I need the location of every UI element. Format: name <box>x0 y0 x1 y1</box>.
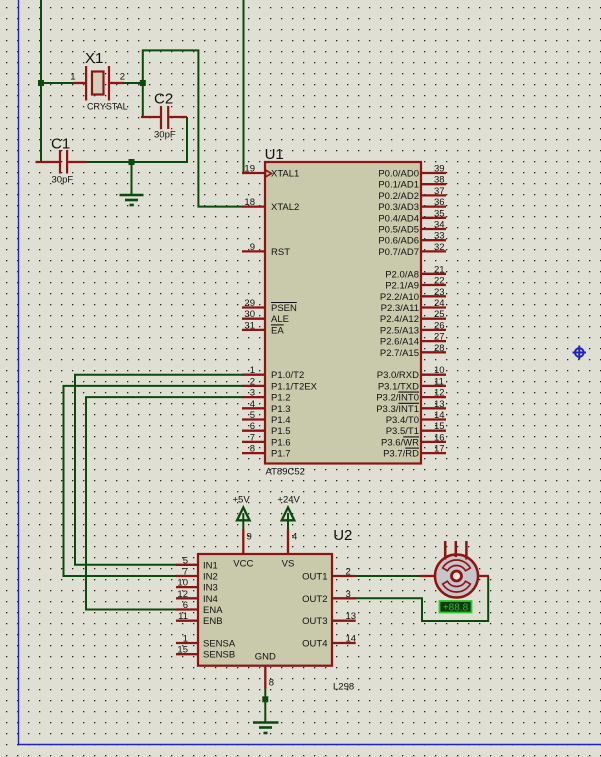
wire U1 P1.0 to U2 IN1 <box>75 375 243 565</box>
svg-text:IN2: IN2 <box>203 572 218 583</box>
junction at X1 pin 1 <box>38 80 44 86</box>
svg-text:3: 3 <box>250 388 255 399</box>
svg-text:38: 38 <box>434 175 445 186</box>
svg-text:18: 18 <box>244 197 255 208</box>
svg-text:U2: U2 <box>333 527 352 544</box>
svg-text:24: 24 <box>434 298 445 309</box>
U1 pin 27 (P2.6/A14) right <box>380 332 446 348</box>
svg-text:6: 6 <box>183 600 188 611</box>
wire GND pin to ground <box>264 689 266 722</box>
crystal X1 <box>73 66 124 101</box>
U2 pin 11 (ENB) left <box>176 611 223 627</box>
svg-text:P1.0/T2: P1.0/T2 <box>271 370 304 381</box>
svg-text:P0.7/AD7: P0.7/AD7 <box>378 247 419 258</box>
U1 pin 9 (RST) left <box>242 242 290 258</box>
svg-text:P1.4: P1.4 <box>271 415 291 426</box>
svg-text:25: 25 <box>434 309 445 320</box>
svg-text:11: 11 <box>178 611 188 622</box>
svg-text:P1.7: P1.7 <box>271 449 291 460</box>
U1 pin 33 (P0.6/AD6) right <box>378 231 446 247</box>
svg-text:OUT1: OUT1 <box>302 572 327 583</box>
motor rpm display <box>440 601 472 614</box>
svg-text:9: 9 <box>250 242 255 253</box>
U1 pin 22 (P2.1/A9) right <box>385 276 446 292</box>
U1 pin 38 (P0.1/AD1) right <box>378 175 446 191</box>
svg-text:P2.3/A11: P2.3/A11 <box>381 303 419 314</box>
junction on GND wire <box>262 696 268 702</box>
svg-text:AT89C52: AT89C52 <box>266 467 305 478</box>
svg-text:CRYSTAL: CRYSTAL <box>87 102 128 112</box>
U1 pin 18 (XTAL2) left <box>242 197 299 213</box>
U1 pin 8 (P1.7) left <box>242 444 291 460</box>
motor M1 body <box>435 555 478 598</box>
svg-text:P0.1/AD1: P0.1/AD1 <box>378 180 419 191</box>
svg-text:26: 26 <box>434 320 445 331</box>
U1 pin 4 (P1.3) left <box>242 399 291 415</box>
svg-text:14: 14 <box>346 634 357 645</box>
U2 pin 15 (SENSB) left <box>176 645 235 661</box>
junction at X1 pin 2 <box>140 80 146 86</box>
svg-text:2: 2 <box>120 72 125 83</box>
driver U2 body <box>198 554 332 666</box>
svg-text:33: 33 <box>434 231 445 242</box>
U1 pin 37 (P0.2/AD2) right <box>378 186 446 202</box>
U1 pin 35 (P0.4/AD4) right <box>378 208 446 224</box>
wire U1 P1.1 to U2 IN2 <box>64 386 244 576</box>
U1 pin 14 (P3.4/T0) right <box>386 410 446 426</box>
U1 pin 21 (P2.0/A8) right <box>385 264 446 280</box>
U2 pin 7 (IN2) left <box>176 567 218 583</box>
svg-text:5: 5 <box>183 555 188 566</box>
U1 pin 15 (P3.5/T1) right <box>386 421 446 437</box>
svg-text:XTAL2: XTAL2 <box>271 202 299 213</box>
svg-text:P0.6/AD6: P0.6/AD6 <box>378 236 419 247</box>
svg-text:1: 1 <box>250 365 255 376</box>
svg-text:OUT3: OUT3 <box>302 616 327 627</box>
U1 pin 34 (P0.5/AD5) right <box>378 220 446 236</box>
svg-text:P3.3/INT1: P3.3/INT1 <box>376 404 419 415</box>
svg-text:IN3: IN3 <box>203 583 218 594</box>
svg-text:5: 5 <box>250 410 255 421</box>
svg-text:8: 8 <box>269 678 274 689</box>
U1 pin 1 (P1.0/T2) left <box>242 365 304 381</box>
svg-text:36: 36 <box>434 197 445 208</box>
U1 pin 26 (P2.5/A13) right <box>380 320 446 336</box>
svg-text:P2.5/A13: P2.5/A13 <box>380 325 419 336</box>
svg-text:8: 8 <box>250 444 255 455</box>
svg-text:P1.2: P1.2 <box>271 393 291 404</box>
svg-text:10: 10 <box>177 578 188 589</box>
svg-text:L298: L298 <box>333 682 354 693</box>
svg-text:21: 21 <box>434 264 445 275</box>
svg-text:U1: U1 <box>265 146 284 163</box>
svg-text:P3.0/RXD: P3.0/RXD <box>377 370 419 381</box>
svg-text:30pF: 30pF <box>52 175 74 186</box>
svg-text:30: 30 <box>244 309 255 320</box>
U1 pin 30 (ALE) left <box>242 309 289 325</box>
svg-text:19: 19 <box>244 164 255 175</box>
U2 pin 14 (OUT4) right <box>302 634 356 650</box>
U1 pin 16 (P3.6/WR) right <box>381 432 446 448</box>
svg-text:9: 9 <box>247 532 252 543</box>
svg-text:P2.6/A14: P2.6/A14 <box>380 337 419 348</box>
svg-text:2: 2 <box>250 376 255 387</box>
U1 pin 6 (P1.5) left <box>242 421 291 437</box>
svg-text:P1.5: P1.5 <box>271 426 291 437</box>
svg-text:P2.1/A9: P2.1/A9 <box>385 281 419 292</box>
svg-text:P0.5/AD5: P0.5/AD5 <box>378 225 419 236</box>
wire X1 pin 2 to junction <box>123 82 143 84</box>
svg-text:7: 7 <box>183 567 188 578</box>
U1 pin 19 (XTAL1) left <box>242 164 299 180</box>
svg-text:P3.1/TXD: P3.1/TXD <box>378 381 419 392</box>
svg-text:GND: GND <box>255 652 276 663</box>
wire X1 pin2 loop to U1 XTAL2 <box>143 50 244 206</box>
svg-text:ENA: ENA <box>203 605 223 616</box>
wire net XTAL1 vertical from top to U1 <box>243 0 245 173</box>
U1 pin 39 (P0.0/AD0) right <box>378 164 446 180</box>
svg-text:30pF: 30pF <box>154 130 176 141</box>
power arrow +24V <box>282 508 295 555</box>
svg-text:13: 13 <box>346 611 357 622</box>
U2 pin 5 (IN1) left <box>176 555 218 571</box>
svg-text:P2.4/A12: P2.4/A12 <box>380 314 419 325</box>
svg-text:SENSA: SENSA <box>203 639 236 650</box>
U1 pin 11 (P3.1/TXD) right <box>378 376 446 392</box>
svg-text:C2: C2 <box>154 90 173 107</box>
svg-text:P3.6/WR: P3.6/WR <box>381 437 419 448</box>
svg-text:34: 34 <box>434 220 445 231</box>
wire OUT2 to motor right terminal <box>356 576 489 621</box>
capacitor C2 <box>141 106 187 129</box>
U1 pin 12 (P3.2/INT0) right <box>376 388 446 404</box>
motor left lead <box>420 575 436 577</box>
svg-text:IN1: IN1 <box>203 560 218 571</box>
U1 pin 17 (P3.7/RD) right <box>383 444 446 460</box>
svg-text:P2.0/A8: P2.0/A8 <box>385 269 419 280</box>
svg-text:7: 7 <box>250 432 255 443</box>
svg-text:12: 12 <box>177 589 188 600</box>
svg-text:4: 4 <box>292 532 297 543</box>
U2 pin 3 (OUT2) right <box>302 589 356 605</box>
U1 XTAL1 clock marker <box>266 170 272 177</box>
svg-text:6: 6 <box>250 421 255 432</box>
power arrow +5V <box>237 508 250 555</box>
sheet border left <box>18 0 20 745</box>
svg-text:IN4: IN4 <box>203 594 218 605</box>
svg-text:1: 1 <box>70 72 75 83</box>
motor right lead <box>477 575 489 577</box>
svg-text:P2.7/A15: P2.7/A15 <box>380 348 419 359</box>
ground symbol (U2) <box>253 723 279 734</box>
U1 pin 25 (P2.4/A12) right <box>380 309 446 325</box>
svg-text:X1: X1 <box>85 50 103 67</box>
svg-text:22: 22 <box>434 276 445 287</box>
svg-text:P3.2/INT0: P3.2/INT0 <box>376 393 419 404</box>
svg-text:13: 13 <box>434 399 445 410</box>
U1 pin 24 (P2.3/A11) right <box>381 298 446 314</box>
svg-text:1: 1 <box>183 634 188 645</box>
svg-text:P2.2/A10: P2.2/A10 <box>380 292 419 303</box>
U1 pin 28 (P2.7/A15) right <box>380 343 446 359</box>
svg-text:VCC: VCC <box>233 559 253 570</box>
svg-text:P0.0/AD0: P0.0/AD0 <box>378 169 419 180</box>
U1 pin 7 (P1.6) left <box>242 432 291 448</box>
motor commutator arc bottom <box>443 581 471 592</box>
wire junction to X1 pin 1 <box>41 82 74 84</box>
U1 pin 2 (P1.1/T2EX) left <box>242 376 318 392</box>
svg-text:XTAL1: XTAL1 <box>271 169 299 180</box>
U1 pin 10 (P3.0/RXD) right <box>377 365 446 381</box>
U1 pin 5 (P1.4) left <box>242 410 291 426</box>
svg-text:OUT4: OUT4 <box>302 639 327 650</box>
svg-text:14: 14 <box>434 410 445 421</box>
svg-text:31: 31 <box>244 320 255 331</box>
motor brush terminals <box>445 541 466 560</box>
svg-text:VS: VS <box>282 559 295 570</box>
U1 pin 13 (P3.3/INT1) right <box>376 399 446 415</box>
ground symbol (crystal circuit) <box>120 162 144 205</box>
svg-text:ENB: ENB <box>203 616 223 627</box>
svg-text:4: 4 <box>250 399 255 410</box>
svg-text:35: 35 <box>434 208 445 219</box>
capacitor C1 <box>36 150 87 174</box>
svg-text:P1.1/T2EX: P1.1/T2EX <box>271 381 318 392</box>
U2 pin 1 (SENSA) left <box>176 634 236 650</box>
svg-text:37: 37 <box>434 186 445 197</box>
U2 pin 2 (OUT1) right <box>302 567 356 583</box>
svg-text:ALE: ALE <box>271 314 289 325</box>
U1 pin 3 (P1.2) left <box>242 388 291 404</box>
U1 pin 29 (PSEN) left <box>242 298 297 314</box>
svg-text:EA: EA <box>271 325 284 336</box>
junction on ground rail <box>129 159 135 165</box>
svg-text:15: 15 <box>177 645 188 656</box>
wire OUT1 to motor left terminal <box>356 575 422 577</box>
svg-text:23: 23 <box>434 287 445 298</box>
svg-text:P0.4/AD4: P0.4/AD4 <box>378 213 419 224</box>
svg-text:+24V: +24V <box>277 495 300 506</box>
svg-text:+5V: +5V <box>233 495 251 506</box>
svg-text:P1.6: P1.6 <box>271 437 291 448</box>
svg-text:10: 10 <box>434 365 445 376</box>
svg-text:+88.8: +88.8 <box>443 603 469 614</box>
U1 pin 31 (EA) left <box>242 320 284 336</box>
svg-text:29: 29 <box>244 298 255 309</box>
svg-text:P1.3: P1.3 <box>271 404 291 415</box>
svg-text:3: 3 <box>346 589 351 600</box>
svg-text:RST: RST <box>271 247 290 258</box>
svg-text:SENSB: SENSB <box>203 650 235 661</box>
svg-text:28: 28 <box>434 343 445 354</box>
svg-text:2: 2 <box>346 567 351 578</box>
U1 pin 32 (P0.7/AD7) right <box>378 242 446 258</box>
svg-text:C1: C1 <box>51 135 70 152</box>
U2 pin 13 (OUT3) right <box>302 611 356 627</box>
sheet border bottom <box>18 744 601 746</box>
U2 pin 12 (IN4) left <box>176 589 218 605</box>
svg-text:P3.7/RD: P3.7/RD <box>383 449 419 460</box>
svg-text:P3.4/T0: P3.4/T0 <box>386 415 419 426</box>
origin marker <box>573 346 587 360</box>
svg-text:P0.3/AD3: P0.3/AD3 <box>378 202 419 213</box>
svg-text:12: 12 <box>434 388 445 399</box>
U2 pin 10 (IN3) left <box>176 578 218 594</box>
svg-text:32: 32 <box>434 242 445 253</box>
svg-text:15: 15 <box>434 421 445 432</box>
svg-text:27: 27 <box>434 332 445 343</box>
U2 pin 6 (ENA) left <box>176 600 223 616</box>
svg-text:PSEN: PSEN <box>271 303 297 314</box>
wire U1 P1.2 to U2 ENA <box>86 397 243 609</box>
svg-text:OUT2: OUT2 <box>302 594 327 605</box>
svg-text:P0.2/AD2: P0.2/AD2 <box>378 191 419 202</box>
wire junction down to C2 <box>142 83 144 118</box>
wire C2 to ground rail <box>86 117 187 162</box>
svg-text:39: 39 <box>434 164 445 175</box>
svg-text:17: 17 <box>434 444 445 455</box>
microcontroller U1 body <box>265 162 421 464</box>
svg-text:P3.5/T1: P3.5/T1 <box>386 426 419 437</box>
wire net XTAL2 vertical from top to C1 <box>40 0 42 162</box>
U2 pin 8 (GND) bottom stub <box>265 666 274 689</box>
motor commutator arc top <box>443 560 471 571</box>
U1 pin 23 (P2.2/A10) right <box>380 287 446 303</box>
svg-text:11: 11 <box>434 376 444 387</box>
U1 pin 36 (P0.3/AD3) right <box>378 197 446 213</box>
svg-text:16: 16 <box>434 432 445 443</box>
